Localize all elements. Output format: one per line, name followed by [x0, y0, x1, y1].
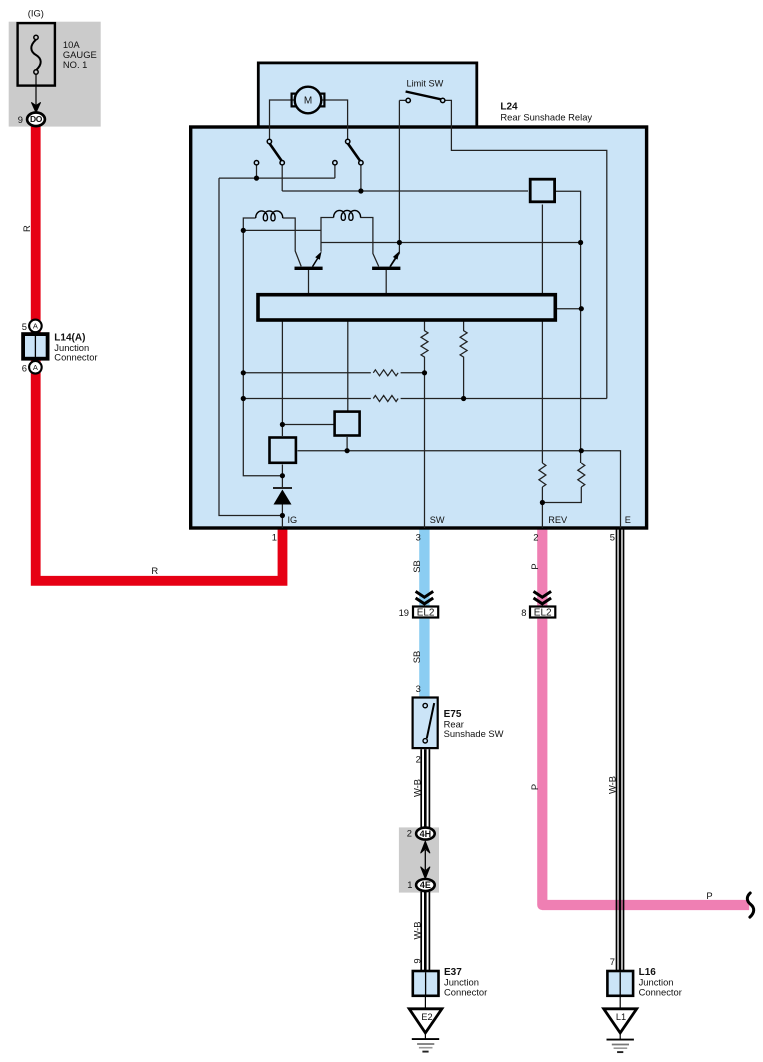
svg-text:8: 8 [521, 607, 526, 618]
svg-text:9: 9 [412, 958, 423, 963]
svg-text:4E: 4E [420, 880, 431, 890]
svg-text:6: 6 [22, 363, 27, 374]
svg-text:9: 9 [18, 114, 23, 125]
svg-text:4H: 4H [420, 829, 432, 839]
svg-text:M: M [304, 96, 312, 107]
svg-text:3: 3 [416, 683, 421, 694]
svg-text:SW: SW [430, 515, 445, 525]
svg-text:Sunshade SW: Sunshade SW [444, 728, 504, 739]
svg-text:P: P [706, 890, 712, 901]
svg-text:5: 5 [22, 321, 27, 332]
svg-text:REV: REV [548, 515, 568, 525]
svg-text:A: A [33, 322, 38, 331]
svg-text:W-B: W-B [411, 921, 422, 939]
svg-text:2: 2 [533, 532, 538, 543]
svg-text:SB: SB [411, 651, 422, 664]
svg-text:3: 3 [416, 532, 421, 543]
svg-text:NO. 1: NO. 1 [63, 59, 88, 70]
svg-text:Connector: Connector [54, 351, 97, 362]
svg-text:Connector: Connector [639, 987, 682, 998]
svg-text:R: R [21, 225, 32, 232]
svg-text:2: 2 [407, 828, 412, 839]
svg-text:W-B: W-B [411, 779, 422, 797]
svg-text:L1: L1 [616, 1012, 626, 1022]
svg-text:DO: DO [30, 114, 43, 124]
svg-text:Rear Sunshade Relay: Rear Sunshade Relay [500, 112, 592, 123]
svg-text:2: 2 [416, 753, 421, 764]
svg-text:19: 19 [399, 607, 409, 618]
svg-text:1: 1 [407, 879, 412, 890]
svg-text:Limit SW: Limit SW [407, 78, 444, 88]
svg-text:P: P [529, 563, 540, 569]
svg-text:1: 1 [272, 532, 277, 543]
svg-text:P: P [529, 784, 540, 790]
svg-text:5: 5 [610, 532, 615, 543]
svg-text:SB: SB [411, 560, 422, 573]
svg-text:EL2: EL2 [417, 608, 435, 619]
svg-text:Connector: Connector [444, 987, 487, 998]
svg-text:W-B: W-B [607, 776, 618, 794]
svg-text:E2: E2 [421, 1012, 432, 1022]
svg-text:IG: IG [288, 515, 298, 525]
svg-text:7: 7 [610, 956, 615, 967]
svg-text:A: A [33, 363, 38, 372]
svg-text:(IG): (IG) [28, 8, 44, 19]
svg-text:R: R [151, 565, 158, 576]
svg-text:EL2: EL2 [534, 608, 552, 619]
svg-text:E: E [625, 515, 631, 525]
